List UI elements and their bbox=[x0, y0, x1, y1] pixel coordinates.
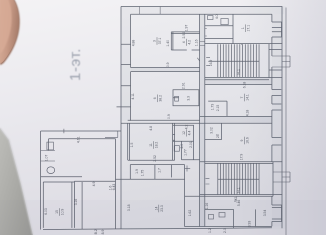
fixtures top-middle bbox=[208, 16, 214, 20]
window W3 right bbox=[272, 90, 281, 96]
door cross near corridor bbox=[185, 166, 191, 172]
bottom wall outer annex to main bbox=[43, 228, 272, 230]
vignette bbox=[121, 6, 286, 229]
rooms row partitions bbox=[130, 165, 171, 180]
window W4 right bbox=[272, 104, 281, 110]
mid-right room bottom wall bbox=[200, 115, 272, 117]
door ticks bearing wall near pantry bbox=[200, 42, 205, 46]
room 18.2 right wall + door bbox=[173, 123, 175, 160]
label room B bbox=[182, 130, 191, 137]
svg-text:4.61: 4.61 bbox=[77, 136, 81, 143]
room 17.1 bay window bbox=[272, 22, 282, 37]
label room 16.6 bbox=[240, 137, 249, 145]
corridor wall x=184.6 bbox=[184, 165, 186, 227]
outer boundary line right (faint) bbox=[285, 8, 287, 236]
entrance vestibule 1 bbox=[269, 50, 282, 71]
bathroom box in 38.2 bbox=[173, 90, 199, 106]
sub-room C walls bbox=[205, 123, 222, 139]
inner surface left exterior wall bbox=[130, 14, 132, 121]
stairwell2 treads bbox=[218, 163, 259, 194]
stairwell1 bottom wall double bbox=[205, 77, 282, 79]
annex partition y=177 bbox=[41, 176, 82, 178]
stairwell2 right wall bbox=[272, 162, 274, 197]
label room 14.1 bbox=[240, 94, 249, 102]
rooms row bottom wall bbox=[116, 178, 185, 180]
finger holding paper, top-left bbox=[0, 0, 20, 65]
wall room38.2 bottom / double bbox=[121, 120, 272, 123]
bottom-right bathroom walls bbox=[205, 209, 234, 228]
annex inner top wall bbox=[49, 139, 116, 151]
WC fixtures annex bbox=[47, 142, 54, 150]
floor-plan drawing bbox=[41, 7, 290, 236]
door ticks wall x=204.8 top bbox=[205, 29, 207, 37]
toilet oval annex bbox=[47, 167, 55, 174]
room 18.2 walls bbox=[128, 123, 175, 160]
window W1 left wall bbox=[121, 44, 131, 64]
stairwell1 top wall bbox=[205, 44, 282, 45]
bottom wall inner bbox=[185, 226, 272, 228]
stairwell1 right wall bbox=[268, 44, 270, 78]
stairwell2 top wall double bbox=[200, 162, 283, 164]
label room 17.1 bbox=[241, 24, 250, 32]
svg-text:1-эт.: 1-эт. bbox=[67, 48, 84, 81]
step between annex and main bbox=[105, 131, 118, 137]
porch 2 steps bbox=[273, 172, 290, 182]
sub-room corner walls bbox=[208, 101, 227, 116]
wall between room 37.1 and room 38.2 bbox=[131, 68, 200, 72]
dimension tick on annex top wall bbox=[63, 129, 65, 134]
fixtures bottom bathroom bbox=[209, 215, 214, 220]
bearing wall tint bands bbox=[121, 7, 284, 227]
room 10.9 walls bbox=[43, 181, 74, 228]
inner surface top exterior wall bbox=[131, 13, 272, 15]
outer wall main block bbox=[121, 7, 282, 230]
window ticks top wall room 37.1 bbox=[140, 7, 161, 15]
partition x=255.5 bottom-right bbox=[255, 209, 257, 226]
svg-text:4.9: 4.9 bbox=[92, 182, 96, 187]
svg-text:1.6: 1.6 bbox=[109, 186, 113, 191]
annex corridor wall x=82 bbox=[81, 182, 83, 229]
corridor top wall annex right part bbox=[74, 180, 115, 182]
room B walls bbox=[173, 125, 194, 160]
label room 18.2 bbox=[149, 141, 158, 149]
svg-text:1.07: 1.07 bbox=[45, 155, 49, 162]
fixtures left of B2 bbox=[174, 146, 179, 152]
long bearing wall V2 (stair side) bbox=[204, 14, 206, 226]
stairwell2 mid landing line bbox=[218, 178, 259, 180]
window W5 right bbox=[272, 138, 281, 146]
right exterior wall inner segments bbox=[271, 14, 273, 226]
label pantry bbox=[182, 39, 191, 46]
mid-right room top wall bbox=[205, 84, 272, 86]
porch 1 steps bbox=[272, 56, 290, 67]
label room 37.1 bbox=[153, 37, 162, 45]
label room 23.3 bbox=[154, 205, 163, 213]
stairwell2 bottom wall double bbox=[185, 195, 283, 197]
stairwell1 left door ticks bbox=[206, 58, 210, 66]
ANNEX outer walls bbox=[41, 131, 121, 230]
rooms row top wall bbox=[130, 164, 184, 166]
label room 10.9 bbox=[55, 208, 64, 216]
window W2 left wall bbox=[117, 86, 131, 107]
stairwell1 mid landing line bbox=[208, 60, 259, 62]
door tick vestibule bbox=[197, 58, 199, 61]
fixtures in bathroom 38.2 bbox=[175, 96, 179, 101]
bay window bottom right bbox=[272, 205, 282, 222]
label room 38.2 bbox=[153, 95, 162, 103]
table background visible at bottom-left paper edge bbox=[0, 128, 33, 235]
stairwell2 left door ticks bbox=[206, 178, 210, 184]
room B2 bottom wall bbox=[182, 159, 200, 161]
stairwell1 treads bbox=[218, 44, 259, 77]
TOP-MIDDLE small rooms bbox=[205, 14, 233, 43]
inner room walls (pantry in 37.1) bbox=[171, 32, 199, 50]
long bearing wall V1 bbox=[199, 14, 201, 226]
lower-left big room left edge bbox=[115, 139, 117, 229]
